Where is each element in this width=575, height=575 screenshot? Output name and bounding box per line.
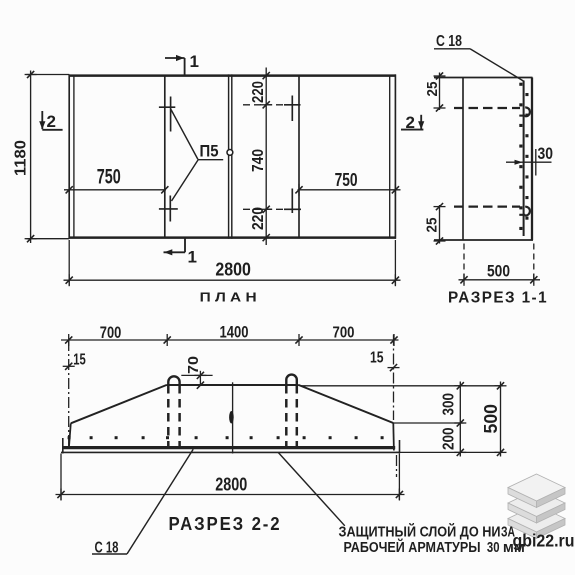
svg-text:2: 2: [406, 113, 415, 132]
svg-text:ЗАЩИТНЫЙ СЛОЙ ДО НИ: ЗАЩИТНЫЙ СЛОЙ ДО НИ: [339, 523, 501, 541]
svg-text:РАБОЧЕЙ АРМАТУРЫ: РАБОЧЕЙ АРМАТУРЫ: [344, 538, 481, 556]
svg-text:30: 30: [487, 539, 500, 556]
svg-text:700: 700: [100, 323, 122, 342]
svg-text:мм: мм: [503, 539, 525, 556]
svg-text:РАЗРЕЗ 2-2: РАЗРЕЗ 2-2: [169, 514, 282, 534]
svg-text:200: 200: [441, 428, 458, 451]
svg-text:500: 500: [481, 404, 501, 434]
svg-text:2800: 2800: [215, 260, 251, 280]
svg-text:1180: 1180: [13, 140, 30, 176]
svg-text:РАЗРЕЗ 1-1: РАЗРЕЗ 1-1: [448, 290, 548, 307]
svg-text:1: 1: [190, 52, 199, 71]
svg-text:220: 220: [250, 81, 267, 103]
svg-text:70: 70: [185, 356, 202, 374]
svg-text:С 18: С 18: [95, 540, 119, 557]
svg-text:15: 15: [370, 350, 384, 367]
svg-text:300: 300: [441, 393, 458, 416]
svg-text:740: 740: [250, 149, 267, 172]
svg-text:1: 1: [188, 248, 197, 267]
svg-text:25: 25: [424, 218, 441, 233]
svg-text:С 18: С 18: [436, 33, 462, 50]
svg-text:700: 700: [333, 325, 355, 342]
svg-text:30: 30: [538, 144, 554, 163]
svg-text:15: 15: [73, 352, 86, 369]
svg-text:П5: П5: [200, 142, 219, 161]
svg-text:2: 2: [47, 112, 56, 131]
svg-text:750: 750: [335, 169, 358, 190]
svg-text:П Л А Н: П Л А Н: [200, 291, 257, 305]
svg-text:220: 220: [250, 207, 267, 230]
svg-text:2800: 2800: [215, 474, 247, 495]
svg-text:1400: 1400: [220, 323, 249, 342]
svg-text:750: 750: [97, 166, 121, 189]
svg-text:25: 25: [424, 82, 441, 97]
svg-text:500: 500: [487, 262, 510, 281]
